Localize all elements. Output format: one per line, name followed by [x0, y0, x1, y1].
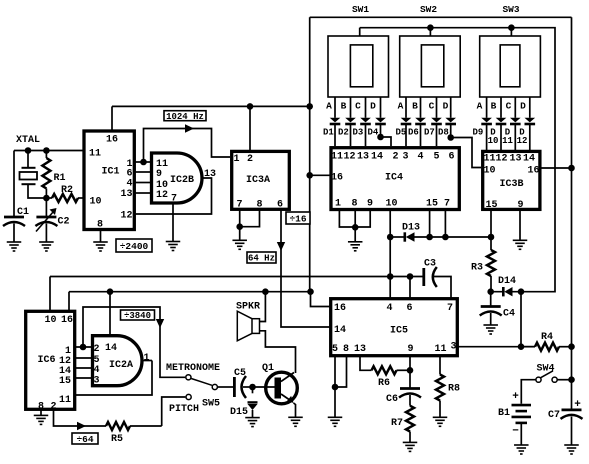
ground C7 — [564, 445, 579, 454]
svg-text:7: 7 — [171, 194, 177, 205]
svg-text:SW1: SW1 — [352, 4, 369, 15]
resistor R3 — [487, 237, 495, 292]
wire IC3B pin15 stub — [490, 209, 492, 237]
IC U-IC4 box — [331, 148, 459, 210]
junction D14 cathode node — [518, 288, 525, 295]
switch SW4 contact B — [552, 377, 557, 382]
wire IC6-8 gnd — [40, 409, 42, 415]
svg-text:IC4: IC4 — [385, 173, 403, 184]
wire SW5 common to C5 — [218, 386, 233, 388]
switch SW5 metronome contact — [186, 375, 191, 380]
svg-text:2: 2 — [93, 344, 99, 355]
capacitor C3 — [424, 267, 451, 299]
switch SW5 lever — [191, 379, 212, 386]
ground Q1 — [288, 417, 303, 426]
svg-text:16: 16 — [61, 315, 73, 326]
junction D13/IC4-7 — [442, 234, 449, 241]
wire IC6-14 to IC2A-4 — [75, 367, 93, 369]
resistor R2 — [46, 194, 84, 202]
svg-text:11: 11 — [483, 154, 495, 165]
resistor R1 — [42, 151, 50, 199]
svg-text:C4: C4 — [503, 309, 515, 320]
battery B1 — [512, 405, 532, 423]
junction R6/C6/pin9 — [407, 367, 414, 374]
wire IC6-15 to IC2A-3 — [75, 377, 93, 379]
junction line1/IC5-6/C3 — [407, 273, 414, 280]
svg-text:8: 8 — [256, 200, 262, 211]
switch SW4 lever — [541, 371, 553, 378]
wire IC1-6 to IC2B-9 — [134, 171, 150, 173]
wire B1+ to SW4 — [521, 380, 536, 404]
svg-text:12: 12 — [343, 152, 355, 163]
junction line2/IC2A-14 — [107, 288, 114, 295]
svg-text:12: 12 — [495, 154, 507, 165]
wire IC4 gnd stem — [354, 227, 356, 242]
capacitor C6 — [399, 389, 421, 398]
junction SW4/V+ bus — [568, 376, 575, 383]
svg-text:11: 11 — [59, 395, 71, 406]
wire IC5 5-8 gnd stem — [334, 387, 336, 417]
svg-text:1024 Hz: 1024 Hz — [166, 112, 204, 122]
svg-text:13: 13 — [204, 169, 216, 180]
svg-text:8: 8 — [351, 199, 357, 210]
wire IC4 pin10 to IC5 pin4 — [389, 210, 391, 299]
diode D3 — [360, 97, 371, 146]
wire SW4 to V+ bus — [557, 379, 572, 381]
svg-text:10: 10 — [385, 199, 397, 210]
junction IC6-1 node — [80, 344, 87, 351]
wire IC3B pin16 to V+ bus — [540, 167, 572, 169]
wire 64Hz signal — [281, 209, 331, 327]
wire line2 to IC5-16 — [311, 292, 331, 307]
wire IC1-8 gnd — [100, 230, 102, 242]
svg-text:C7: C7 — [548, 410, 560, 421]
diode D12 — [525, 97, 536, 150]
wire IC3A gnd stem — [239, 227, 241, 240]
wire line1 — [50, 276, 423, 278]
ground IC4 — [348, 242, 363, 251]
svg-text:16: 16 — [331, 173, 343, 184]
svg-text:15: 15 — [59, 376, 71, 387]
svg-text:15: 15 — [426, 199, 438, 210]
svg-text:4: 4 — [417, 152, 423, 163]
svg-text:SW3: SW3 — [502, 4, 519, 15]
junction D8 node — [447, 134, 454, 141]
wire D4 to IC4 pin2 — [381, 137, 392, 146]
wire IC1-1 to IC2B-11 — [134, 161, 150, 163]
svg-text:10: 10 — [483, 166, 495, 177]
wire Q1 base lead — [253, 386, 275, 388]
wire IC6-2 to R5 — [54, 409, 107, 426]
wire D14 node down to R4 node — [520, 292, 522, 347]
svg-text:METRONOME: METRONOME — [166, 363, 220, 374]
IC U-IC1 box — [84, 131, 134, 230]
gate IC2B — [152, 153, 203, 203]
svg-text:IC5: IC5 — [390, 326, 408, 337]
junction IC4-10 / D13 — [387, 234, 394, 241]
wire XTAL line — [14, 150, 84, 152]
wire IC5-8 stub — [335, 356, 347, 387]
svg-text:R6: R6 — [378, 378, 390, 389]
wire IC2A-1 output — [142, 360, 152, 362]
svg-text:IC2B: IC2B — [170, 175, 194, 186]
svg-text:3: 3 — [450, 342, 456, 353]
svg-text:11: 11 — [434, 344, 446, 355]
svg-text:11: 11 — [502, 136, 513, 146]
junction D13/R3 — [488, 234, 495, 241]
ground IC1-8 — [93, 242, 108, 251]
wire B1 gnd — [520, 423, 522, 445]
junction IC3A gnd node — [236, 223, 243, 230]
svg-text:2: 2 — [392, 152, 398, 163]
svg-text:12: 12 — [517, 136, 528, 146]
diode D5 — [401, 97, 412, 146]
svg-text:B1: B1 — [498, 408, 510, 419]
svg-text:9: 9 — [517, 200, 523, 211]
svg-text:6: 6 — [406, 303, 412, 314]
svg-text:D15: D15 — [230, 407, 248, 418]
capacitor C4 — [480, 307, 502, 316]
resistor R5 — [106, 422, 162, 430]
svg-text:D8: D8 — [438, 128, 449, 138]
wire D13 line left — [390, 236, 406, 238]
ground IC6-8 — [34, 415, 49, 424]
IC U-IC3A box — [232, 151, 290, 209]
junction R1/R2/C2 — [43, 195, 50, 202]
svg-text:7: 7 — [444, 199, 450, 210]
svg-text:÷16: ÷16 — [289, 213, 306, 224]
transistor Q1 — [266, 372, 298, 404]
wire C2 gnd lead — [45, 224, 47, 242]
ground IC2B-7 — [166, 242, 181, 251]
wire C4 top lead — [490, 292, 492, 307]
ground IC5-5-8 — [328, 417, 343, 426]
svg-text:C1: C1 — [17, 207, 29, 218]
svg-text:9: 9 — [407, 344, 413, 355]
wire Q1 emitter gnd — [294, 403, 296, 417]
wire IC5-5 stub — [334, 356, 336, 387]
wire IC5 pin3 line — [457, 346, 535, 348]
wire C6 to R7 — [409, 395, 411, 406]
switch SW1 — [328, 36, 389, 97]
wire SW3 top lead — [510, 28, 512, 36]
svg-text:XTAL: XTAL — [16, 135, 40, 146]
svg-text:4: 4 — [93, 365, 99, 376]
wire 1024Hz signal — [144, 129, 231, 163]
svg-text:14: 14 — [523, 154, 535, 165]
diode D6 — [415, 97, 426, 146]
svg-text:R8: R8 — [448, 384, 460, 395]
svg-text:5: 5 — [332, 344, 338, 355]
junction bus/left-frame — [306, 103, 313, 110]
wire IC1-4 to IC2B-10 — [134, 182, 150, 184]
junction pin3/R4/D14drop — [518, 343, 525, 350]
svg-text:12: 12 — [156, 190, 168, 201]
diode D4 — [375, 97, 386, 137]
svg-text:D6: D6 — [408, 128, 419, 138]
junction line2/SPKR — [262, 288, 269, 295]
svg-text:D1: D1 — [323, 128, 334, 138]
svg-text:SW2: SW2 — [420, 4, 437, 15]
svg-text:11: 11 — [89, 149, 101, 160]
svg-text:SW5: SW5 — [202, 399, 220, 410]
wire line2 — [69, 291, 311, 293]
wire V+ top frame — [310, 16, 572, 18]
wire IC5-9 stub — [409, 356, 411, 388]
arrow 1024Hz — [185, 124, 194, 132]
svg-text:÷3840: ÷3840 — [124, 311, 151, 321]
svg-text:13: 13 — [354, 344, 366, 355]
svg-text:D9: D9 — [473, 128, 484, 138]
label div2400 — [116, 239, 152, 252]
svg-text:6: 6 — [448, 152, 454, 163]
svg-text:16: 16 — [106, 135, 118, 146]
svg-text:3: 3 — [93, 376, 99, 387]
svg-text:3: 3 — [402, 152, 408, 163]
svg-text:R4: R4 — [541, 332, 553, 343]
ground IC3A — [232, 240, 247, 249]
svg-text:16: 16 — [527, 166, 539, 177]
junction line2/left-bus — [307, 288, 314, 295]
diode D10 — [496, 97, 507, 150]
wire IC2B-7 gnd — [172, 205, 174, 242]
junction SW2 common — [427, 24, 434, 31]
diode D7 — [431, 97, 442, 146]
svg-text:÷64: ÷64 — [76, 434, 93, 445]
svg-text:10: 10 — [44, 315, 56, 326]
svg-text:9: 9 — [156, 169, 162, 180]
svg-text:C6: C6 — [386, 394, 398, 405]
resistor R6 — [372, 366, 411, 374]
ground IC3B-9 — [513, 240, 528, 249]
wire IC4 pin8 stub — [354, 210, 356, 228]
wire V+ right bus — [571, 17, 573, 409]
wire clock top bus — [112, 105, 310, 107]
svg-text:1: 1 — [233, 154, 239, 165]
switch SW5 pitch contact — [186, 394, 191, 399]
svg-text:64 Hz: 64 Hz — [248, 254, 275, 264]
capacitor C5 — [234, 376, 252, 398]
wire SW1 top lead — [359, 28, 361, 36]
junction 1024 node — [140, 159, 147, 166]
wire line2 riser IC6-16 — [68, 292, 70, 312]
svg-text:13: 13 — [120, 189, 132, 200]
wire IC3A pin8 stub — [240, 209, 260, 226]
capacitor C7 — [561, 410, 583, 419]
svg-text:D3: D3 — [353, 128, 364, 138]
svg-text:D13: D13 — [402, 223, 420, 234]
svg-text:+: + — [512, 391, 519, 403]
svg-text:4: 4 — [126, 179, 132, 190]
svg-text:12: 12 — [120, 211, 132, 222]
junction XTAL node — [25, 147, 32, 154]
svg-text:C3: C3 — [424, 259, 436, 270]
svg-text:7: 7 — [236, 200, 242, 211]
label div3840 — [121, 310, 155, 321]
wire line1 riser IC6-10 — [49, 277, 51, 312]
label div64 — [72, 433, 98, 445]
svg-text:PITCH: PITCH — [169, 404, 199, 415]
svg-text:8: 8 — [97, 220, 103, 231]
diode D1 — [330, 97, 341, 146]
svg-text:IC6: IC6 — [37, 355, 55, 366]
wire IC4 pin7 stub — [444, 210, 446, 238]
junction SW3 common — [508, 24, 515, 31]
IC U-IC5 box — [331, 299, 458, 356]
speaker SPKR — [237, 311, 259, 341]
wire SW2 top lead — [429, 28, 431, 36]
resistor R7 — [406, 406, 414, 442]
wire crystal top lead — [27, 151, 29, 168]
wire IC4 pin15 stub — [429, 210, 431, 238]
junction left bus / IC4-16 — [306, 172, 313, 179]
switch SW5 common contact — [212, 384, 217, 389]
arrow C2 trimmer — [36, 208, 57, 232]
svg-text:R5: R5 — [111, 434, 123, 445]
wire IC4 pins 1-8-9 ground — [339, 210, 370, 228]
svg-text:4: 4 — [386, 303, 392, 314]
IC U-IC3B box — [483, 151, 540, 209]
svg-text:−: − — [512, 426, 519, 438]
svg-text:R7: R7 — [391, 418, 403, 429]
svg-text:IC3B: IC3B — [499, 179, 523, 190]
svg-text:A: A — [477, 101, 483, 112]
svg-text:÷2400: ÷2400 — [120, 241, 149, 252]
svg-text:C: C — [506, 101, 512, 112]
wire IC3B pin9 gnd — [519, 209, 521, 240]
wire IC2A-14 riser — [109, 292, 111, 336]
junction D13/IC4-15 — [426, 234, 433, 241]
junction D4 node — [377, 134, 384, 141]
switch SW2 — [400, 36, 461, 97]
svg-text:14: 14 — [334, 325, 346, 336]
capacitor C2 (trimmer) — [35, 217, 57, 226]
svg-text:B: B — [491, 101, 497, 112]
switch SW3 — [480, 36, 541, 97]
junction IC4 gnd node — [352, 224, 359, 231]
svg-text:14: 14 — [105, 343, 117, 354]
junction IC3A-2 node — [247, 103, 254, 110]
ground C4 — [483, 325, 498, 334]
wire IC3A pin2 riser — [249, 106, 251, 151]
wire D8 to IC3B pin10 — [451, 138, 481, 168]
wire C1 top lead — [13, 151, 15, 217]
svg-text:IC2A: IC2A — [109, 360, 133, 371]
svg-text:A: A — [398, 101, 404, 112]
svg-text:SPKR: SPKR — [236, 302, 260, 313]
ground D15 — [245, 418, 260, 427]
svg-text:C: C — [355, 101, 361, 112]
junction C5/D15/Q1 — [249, 384, 256, 391]
svg-text:A: A — [326, 101, 332, 112]
arrow div3840 — [156, 319, 164, 328]
label 1024 Hz — [164, 111, 206, 122]
arrow div64 — [77, 422, 86, 430]
junction R1 top node — [43, 147, 50, 154]
svg-text:B: B — [412, 101, 418, 112]
wire C1 gnd lead — [13, 224, 15, 242]
wire SPKR bottom to Q1 collector — [260, 331, 296, 373]
wire IC4 pin16 — [310, 174, 331, 176]
arrow 64Hz — [277, 242, 285, 251]
wire IC5-11 stub — [439, 356, 441, 375]
wire IC6-12 to IC2A-5 — [75, 357, 93, 359]
diode D13 — [405, 232, 491, 241]
IC U-IC6 box — [26, 311, 75, 409]
wire IC1 pin16 riser — [111, 106, 113, 129]
wire SPKR top terminal — [260, 292, 266, 322]
svg-text:5: 5 — [433, 152, 439, 163]
resistor R8 — [436, 375, 444, 417]
resistor R4 — [521, 343, 572, 351]
svg-text:10: 10 — [89, 197, 101, 208]
svg-text:1: 1 — [143, 353, 149, 364]
junction V+ bus IC3B-16 — [568, 165, 575, 172]
label 64 Hz — [247, 252, 276, 264]
ground R7 — [403, 442, 418, 451]
svg-text:D: D — [370, 101, 376, 112]
wire IC6-11 to IC2A-1 node — [75, 361, 152, 396]
wire IC1-13 to IC2B-12 — [134, 192, 150, 194]
svg-text:2: 2 — [247, 154, 253, 165]
ground C1 — [7, 242, 22, 251]
switch SW4 contact A — [536, 377, 541, 382]
junction R4/V+ bus — [568, 343, 575, 350]
svg-text:D: D — [520, 101, 526, 112]
diode D14 — [491, 287, 521, 296]
svg-text:R2: R2 — [61, 185, 73, 196]
wire C7 gnd — [571, 417, 573, 445]
svg-text:1: 1 — [335, 199, 341, 210]
svg-text:13: 13 — [357, 152, 369, 163]
diode D2 — [345, 97, 356, 146]
svg-text:C: C — [429, 101, 435, 112]
wire C2 top lead — [45, 198, 47, 217]
ground R8 — [433, 417, 448, 426]
junction R3/C4/D14 — [487, 288, 494, 295]
svg-text:D7: D7 — [424, 128, 435, 138]
wire IC6-1 to IC2A-2 — [75, 346, 93, 348]
diode D15 — [248, 387, 258, 417]
capacitor C1 — [3, 217, 25, 226]
svg-text:SW4: SW4 — [537, 364, 555, 375]
svg-text:D5: D5 — [396, 128, 407, 138]
wire switch-common bus — [360, 28, 555, 292]
svg-text:D14: D14 — [498, 276, 516, 287]
ground B1 — [514, 445, 529, 454]
svg-text:8: 8 — [343, 344, 349, 355]
gate IC2A — [93, 336, 143, 386]
diode D11 — [510, 97, 521, 150]
wire R5 to PITCH — [162, 397, 186, 426]
wire IC3A pins7-8 join — [239, 209, 241, 226]
label div16 — [286, 212, 310, 224]
ground C2 — [39, 242, 54, 251]
junction line1/IC4-10 — [387, 273, 394, 280]
svg-text:7: 7 — [447, 303, 453, 314]
diode D8 — [445, 97, 456, 138]
svg-text:R3: R3 — [471, 263, 483, 274]
svg-text:10: 10 — [488, 136, 499, 146]
svg-text:11: 11 — [331, 152, 343, 163]
svg-text:IC3A: IC3A — [246, 175, 270, 186]
wire IC2B-13 to IC1-12 — [134, 178, 211, 214]
svg-text:D: D — [443, 101, 449, 112]
svg-text:Q1: Q1 — [262, 363, 274, 374]
diode D9 — [481, 97, 492, 150]
wire C4 gnd lead — [490, 313, 492, 325]
svg-text:14: 14 — [371, 152, 383, 163]
